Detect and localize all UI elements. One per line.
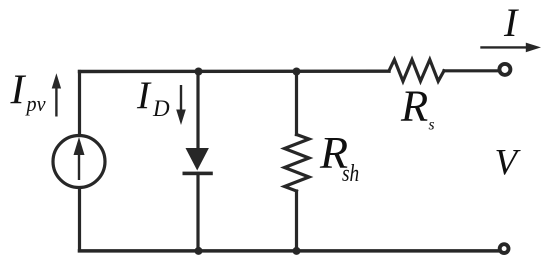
wire diode branch bottom: [196, 174, 199, 251]
junction bottom A: [195, 247, 203, 255]
arrow ID (current direction): [180, 85, 182, 112]
wire Rsh branch top: [295, 72, 298, 135]
wire left vertical (top): [78, 72, 81, 135]
arrow Ipv (current direction): [55, 87, 57, 117]
output terminal bottom: [500, 244, 509, 253]
svg-text:sh: sh: [342, 161, 359, 187]
diode D1 cathode bar: [183, 172, 213, 176]
svg-text:I: I: [10, 68, 27, 114]
resistor Rs: [389, 60, 444, 82]
wire left vertical (bottom): [78, 189, 81, 251]
diode D1 triangle: [186, 148, 209, 171]
current source U1 circle: [53, 136, 105, 188]
svg-text:s: s: [429, 117, 435, 134]
output terminal top: [499, 64, 510, 75]
svg-text:I: I: [136, 74, 152, 117]
svg-text:V: V: [495, 142, 522, 183]
svg-text:D: D: [152, 96, 170, 121]
junction bottom B: [293, 247, 301, 255]
wire bottom rail: [80, 249, 500, 253]
arrow I (output current): [480, 46, 527, 48]
wire diode branch top: [196, 72, 199, 150]
current source U1 arrow: [78, 152, 80, 180]
wire Rs to output terminal: [444, 69, 498, 72]
svg-text:pv: pv: [25, 91, 46, 116]
junction top B: [293, 68, 301, 76]
wire Rsh branch bottom: [295, 191, 298, 251]
wire top rail: [80, 69, 390, 73]
svg-text:R: R: [400, 81, 428, 131]
junction top A: [195, 68, 203, 76]
resistor Rsh: [285, 135, 310, 192]
svg-text:I: I: [503, 0, 519, 45]
